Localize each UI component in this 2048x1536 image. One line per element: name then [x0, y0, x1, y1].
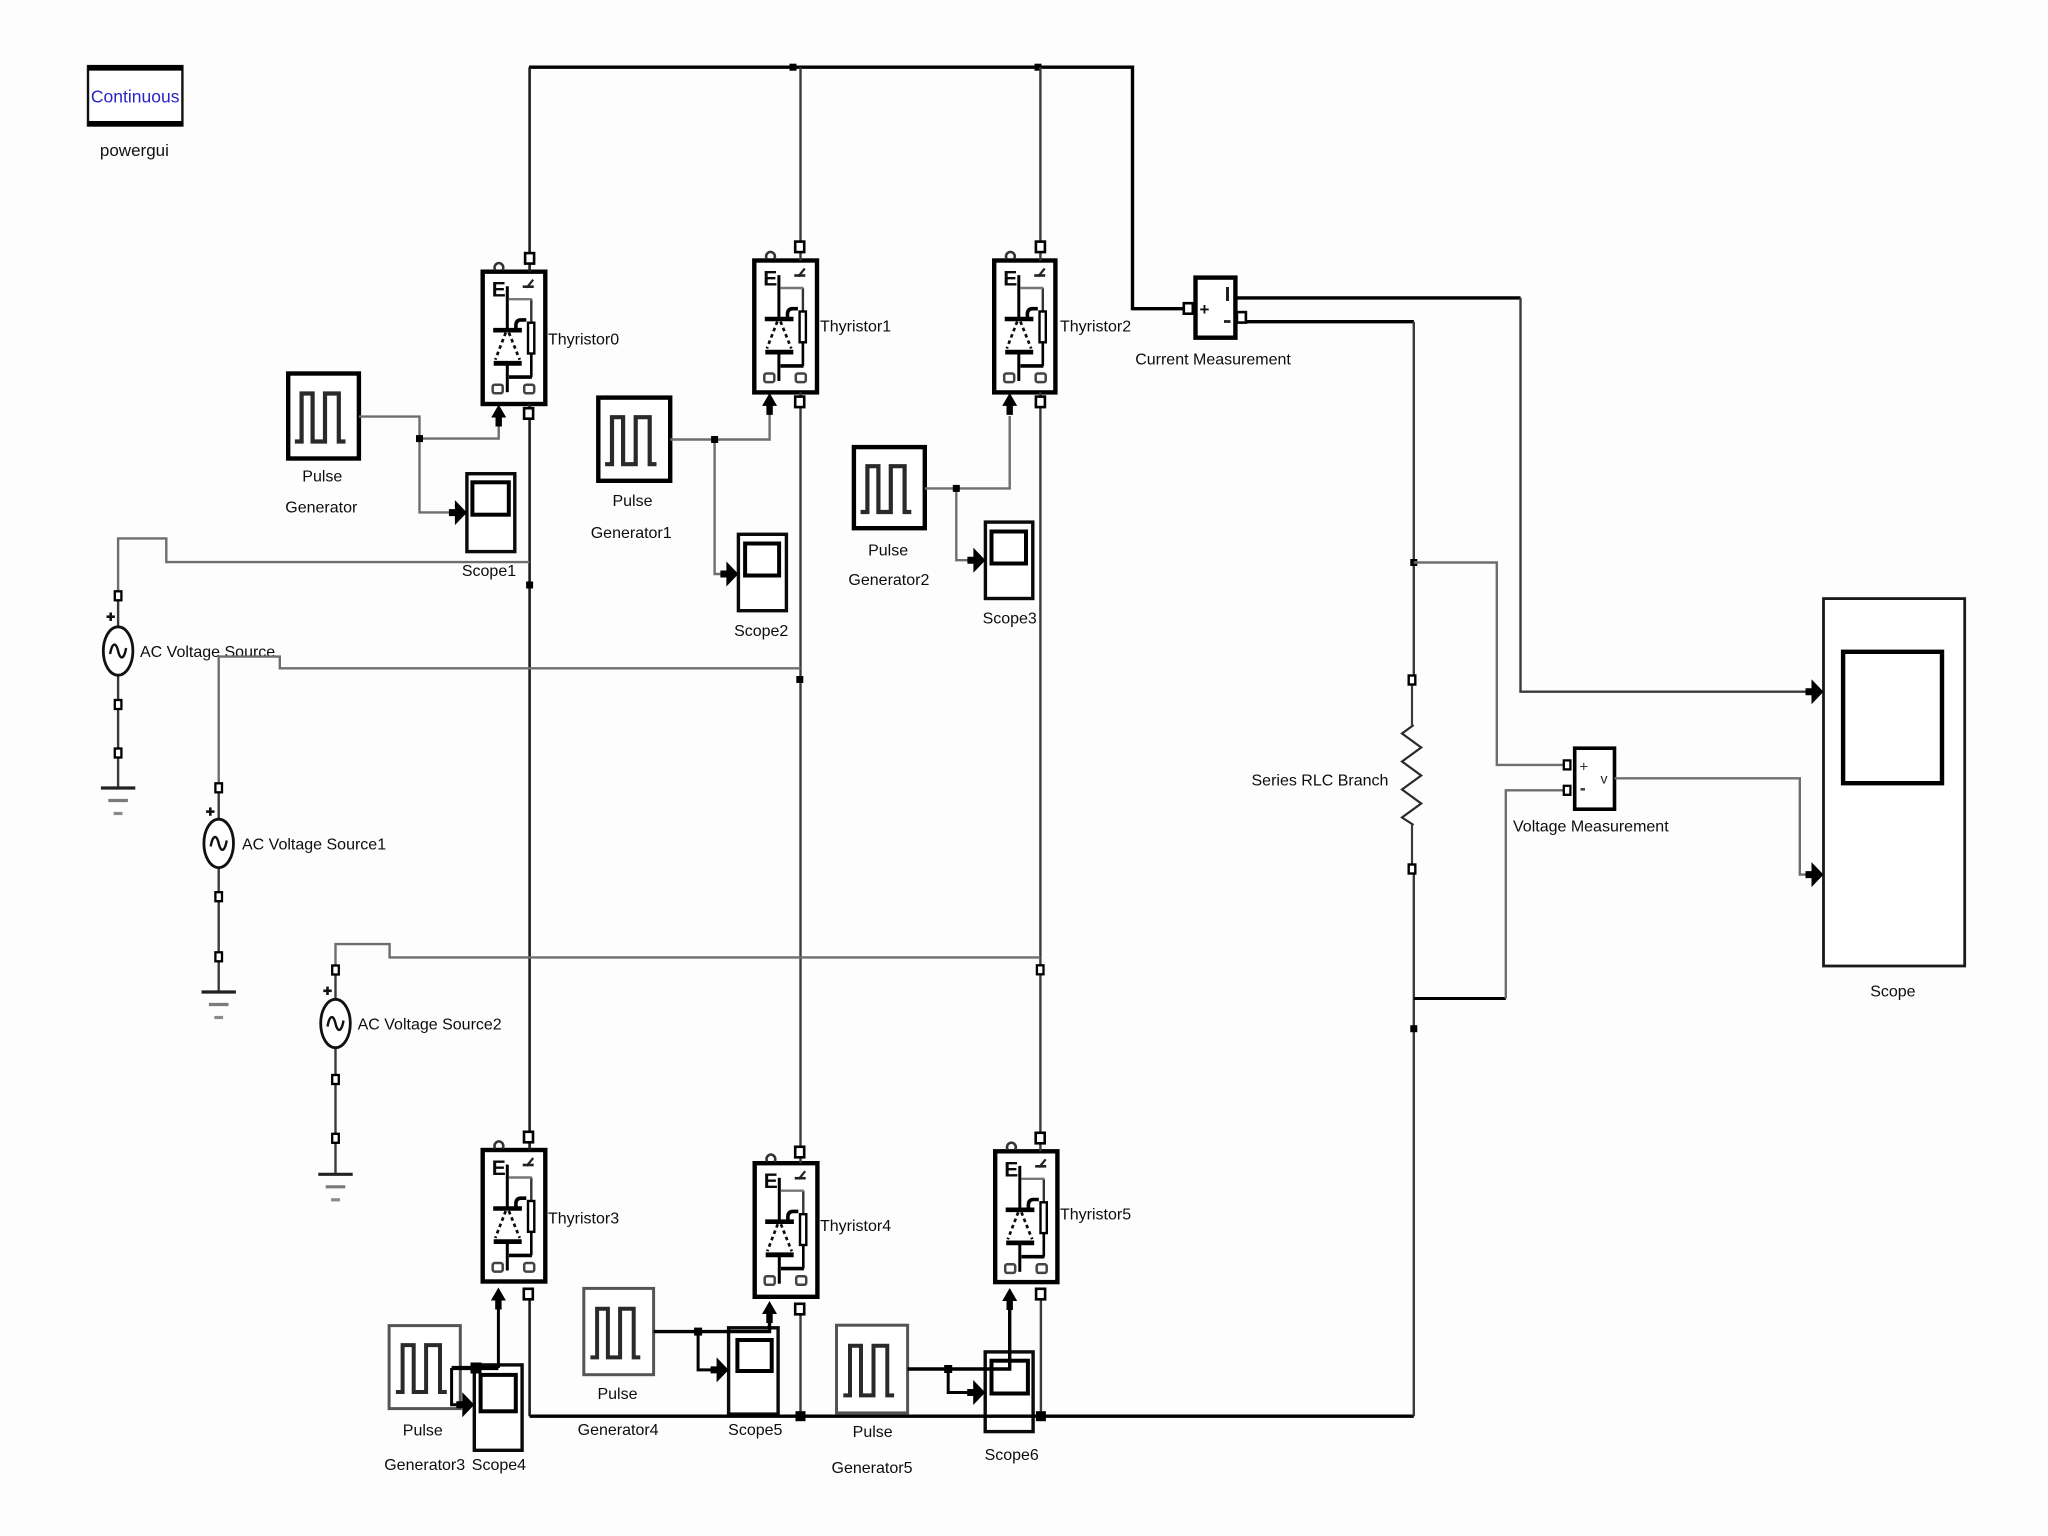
wire Current Measurement minus to Series RLC Branch: [1245, 320, 1414, 323]
svg-text:E: E: [492, 1157, 506, 1180]
wire Thyristor1 cathode column from top bus: [799, 67, 801, 260]
arrow Thyristor3 gate: [491, 1288, 506, 1310]
arrow into Scope input 2: [1806, 862, 1824, 887]
arrow Thyristor5 gate: [1002, 1288, 1017, 1310]
svg-text:Generator: Generator: [285, 500, 358, 517]
scope Scope (main): [1824, 599, 1965, 966]
svg-text:AC Voltage Source1: AC Voltage Source1: [242, 836, 386, 853]
svg-text:E: E: [1003, 268, 1017, 291]
node junction Pulse Generator5 output: [944, 1365, 952, 1373]
wire branch to Scope5 input: [698, 1332, 714, 1370]
port Thyristor2 k (top): [1036, 242, 1045, 253]
wire branch to Scope2: [715, 440, 723, 575]
node junction top bus at Thyristor2 column: [1035, 64, 1042, 71]
wire Thyristor3 anode to bottom bus: [528, 1299, 531, 1416]
port AC Voltage Source1 +: [215, 783, 222, 792]
arrow into Scope input 1: [1806, 679, 1824, 704]
svg-text:Voltage Measurement: Voltage Measurement: [1513, 819, 1669, 836]
svg-text:Pulse: Pulse: [868, 543, 908, 560]
port Series RLC Branch top: [1409, 676, 1416, 685]
plus sign AC Voltage Source1: [206, 810, 214, 813]
thyristor Thyristor2: [994, 261, 1055, 393]
scope Scope6: [985, 1352, 1033, 1432]
port phase-C tap: [1037, 965, 1044, 974]
svg-text:E: E: [1004, 1158, 1018, 1181]
port Series RLC Branch bottom: [1409, 865, 1416, 874]
wire Series RLC Branch bottom lead: [1411, 825, 1413, 865]
svg-text:Pulse: Pulse: [302, 469, 342, 486]
thyristor Thyristor5: [995, 1151, 1057, 1282]
svg-text:E: E: [763, 268, 777, 291]
svg-text:Scope5: Scope5: [728, 1422, 782, 1439]
svg-text:Scope: Scope: [1870, 984, 1915, 1001]
arrow into Scope4: [456, 1392, 474, 1417]
pulse generator Pulse Generator1: [598, 398, 670, 481]
wire RLC bottom junction to Voltage Measurement minus: [1414, 997, 1506, 1000]
gate glyph above Thyristor4: [767, 1155, 776, 1162]
node junction RLC bottom riser: [1410, 1025, 1417, 1032]
pulse generator Pulse Generator2: [854, 447, 925, 528]
port AC Voltage Source2 -: [332, 1075, 339, 1084]
scope Scope5: [729, 1328, 779, 1414]
node junction top bus at Thyristor1 column: [790, 64, 797, 71]
port Thyristor1 k (top): [795, 242, 804, 253]
wire branch to Thyristor0 gate: [420, 426, 499, 439]
svg-text:Continuous: Continuous: [91, 87, 180, 107]
node junction Pulse Generator2 output: [953, 485, 960, 492]
wire AC Voltage Source1 plus to phase-B column: [219, 657, 801, 783]
svg-text:+: +: [1579, 759, 1588, 776]
port ground1 input: [215, 952, 222, 961]
AC source AC Voltage Source1: [204, 819, 234, 867]
AC source AC Voltage Source2: [321, 999, 351, 1047]
svg-text:Generator3: Generator3: [384, 1457, 465, 1474]
wire Series RLC Branch top lead: [1411, 684, 1413, 725]
wire Pulse Generator5 output to Thyristor5 gate: [908, 1308, 1010, 1369]
node junction RLC top: [1410, 559, 1417, 566]
scope Scope1: [467, 474, 515, 552]
node junction phase-A column: [526, 582, 533, 589]
port Thyristor1 a (bottom): [795, 397, 804, 408]
svg-text:Generator1: Generator1: [591, 525, 672, 542]
svg-text:Current Measurement: Current Measurement: [1135, 352, 1291, 369]
port Thyristor0 a (bottom): [524, 408, 533, 419]
wire Thyristor5 anode to bottom bus: [1040, 1299, 1042, 1416]
wire AC Voltage Source2 plus to phase-C column: [336, 944, 1041, 965]
wire Pulse Generator2 output to Thyristor2 gate and Scope3: [925, 416, 1010, 488]
wire AC Voltage Source1 minus lead to ground: [217, 792, 219, 992]
svg-text:AC Voltage Source: AC Voltage Source: [140, 644, 275, 661]
plus sign AC Voltage Source: [107, 615, 115, 618]
port Thyristor4 a (bottom): [795, 1304, 804, 1315]
svg-text:Pulse: Pulse: [597, 1386, 637, 1403]
node junction phase-B column: [796, 676, 803, 683]
resistor Series RLC Branch: [1402, 725, 1421, 825]
arrow into Scope1: [449, 500, 467, 525]
voltage measurement VM1: [1575, 748, 1615, 809]
svg-text:Thyristor2: Thyristor2: [1060, 319, 1131, 336]
wire phase-C column Thyristor2 anode to Thyristor5 cathode: [1039, 392, 1041, 1151]
wire Pulse Generator output to Thyristor0 gate and Scope1: [359, 417, 452, 513]
thyristor Thyristor3: [483, 1150, 546, 1282]
node junction Pulse Generator3 output: [471, 1363, 482, 1374]
svg-text:Scope6: Scope6: [985, 1447, 1039, 1464]
pulse generator Pulse Generator5: [837, 1325, 908, 1413]
port AC Voltage Source +: [115, 591, 122, 600]
node junction Pulse Generator1 output: [711, 436, 718, 443]
ground ground1: [202, 992, 236, 1018]
port Current Measurement +: [1184, 303, 1193, 314]
wire branch to Scope3: [956, 488, 970, 560]
scope Scope4: [474, 1365, 522, 1450]
arrow into Scope6: [967, 1380, 985, 1405]
gate glyph above Thyristor0: [495, 263, 504, 270]
port Voltage Measurement +: [1564, 760, 1571, 769]
svg-text:E: E: [764, 1170, 778, 1193]
wire Thyristor2 cathode column from top bus: [1039, 67, 1041, 260]
svg-text:+: +: [1200, 300, 1210, 319]
svg-text:Thyristor4: Thyristor4: [820, 1218, 891, 1235]
gate glyph above Thyristor5: [1007, 1143, 1016, 1150]
wire phase-B column Thyristor1 anode to Thyristor4 cathode: [799, 392, 801, 1163]
port Voltage Measurement -: [1564, 786, 1571, 795]
gate glyph above Thyristor2: [1006, 252, 1015, 259]
arrow into Scope2: [720, 562, 738, 587]
svg-text:Generator5: Generator5: [832, 1460, 913, 1477]
pulse generator Pulse Generator4: [584, 1288, 654, 1374]
arrow into Scope5: [711, 1357, 729, 1382]
thyristor Thyristor4: [755, 1163, 818, 1297]
port ground input: [115, 749, 122, 758]
svg-text:Generator2: Generator2: [848, 572, 929, 589]
node junction Pulse Generator4 output: [694, 1328, 702, 1336]
svg-text:Scope3: Scope3: [983, 611, 1037, 628]
arrow Thyristor2 gate: [1002, 393, 1017, 415]
wire Pulse Generator4 output to Thyristor4 gate: [654, 1322, 770, 1332]
port ground2 input: [332, 1134, 339, 1143]
port Thyristor5 a (bottom): [1036, 1289, 1045, 1300]
svg-text:v: v: [1601, 771, 1608, 787]
svg-text:E: E: [492, 279, 506, 302]
arrow Thyristor0 gate: [491, 405, 506, 427]
svg-text:Thyristor3: Thyristor3: [548, 1211, 619, 1228]
port Thyristor0 k (top): [525, 253, 534, 264]
thyristor Thyristor0: [483, 272, 546, 404]
svg-text:Thyristor1: Thyristor1: [820, 319, 891, 336]
wire RLC top junction to Voltage Measurement plus: [1414, 563, 1563, 765]
port AC Voltage Source2 +: [332, 966, 339, 975]
svg-text:powergui: powergui: [100, 141, 169, 160]
wire AC Voltage Source plus to phase-A column: [118, 538, 529, 591]
port Thyristor3 k (top): [524, 1132, 533, 1143]
powergui block: [88, 66, 182, 125]
port Thyristor4 k (top): [795, 1147, 804, 1158]
wire Thyristor0 cathode column from top bus: [528, 67, 531, 272]
thyristor Thyristor1: [754, 261, 817, 393]
wire bottom anode bus: [530, 1414, 1414, 1417]
port AC Voltage Source -: [115, 700, 122, 709]
gate glyph above Thyristor1: [766, 252, 775, 259]
node junction Thyristor4 at bottom bus: [796, 1411, 806, 1421]
port AC Voltage Source1 -: [215, 892, 222, 901]
plus sign AC Voltage Source2: [323, 989, 331, 992]
wire Thyristor4 anode to bottom bus: [799, 1313, 801, 1416]
wire phase-A column Thyristor0 anode to Thyristor3 cathode: [528, 404, 531, 1150]
wire Pulse Generator3 output to Thyristor3 gate: [452, 1366, 499, 1370]
svg-text:Series RLC Branch: Series RLC Branch: [1252, 773, 1389, 790]
svg-text:Thyristor0: Thyristor0: [548, 332, 619, 349]
wire RLC bottom to bottom bus riser: [1413, 873, 1415, 1416]
node junction Pulse Generator output: [416, 435, 423, 442]
ground ground: [101, 788, 135, 814]
arrow into Scope3: [967, 548, 985, 573]
svg-text:Scope1: Scope1: [462, 563, 516, 580]
svg-text:Pulse: Pulse: [853, 1424, 893, 1441]
wire loop to Scope4 input: [452, 1368, 460, 1405]
AC source AC Voltage Source: [103, 627, 133, 675]
svg-text:Generator4: Generator4: [578, 1422, 659, 1439]
svg-text:Scope2: Scope2: [734, 623, 788, 640]
ground ground2: [318, 1174, 352, 1200]
port Thyristor2 a (bottom): [1036, 397, 1045, 408]
svg-text:Pulse: Pulse: [403, 1423, 443, 1440]
wire AC Voltage Source2 minus lead to ground: [334, 974, 336, 1174]
svg-text:Thyristor5: Thyristor5: [1060, 1207, 1131, 1224]
current measurement CM1: [1196, 278, 1236, 338]
scope Scope2: [738, 534, 786, 610]
scope Scope3: [985, 522, 1032, 598]
pulse generator Pulse Generator: [288, 374, 359, 459]
wire AC Voltage Source minus lead to ground: [117, 600, 119, 788]
wire branch to Scope6 input: [948, 1369, 969, 1393]
wire top bus right drop to Current Measurement: [1133, 66, 1187, 309]
arrow Thyristor4 gate: [762, 1301, 777, 1323]
gate glyph above Thyristor3: [495, 1141, 504, 1148]
svg-text:Pulse: Pulse: [612, 493, 652, 510]
node junction Thyristor5 at bottom bus: [1036, 1411, 1046, 1421]
port Thyristor3 a (bottom): [524, 1289, 533, 1300]
wire top bus (thyristor cathode bus): [529, 65, 1133, 68]
port Thyristor5 k (top): [1036, 1133, 1045, 1144]
wire Voltage Measurement v output to Scope input 2: [1615, 778, 1810, 874]
wire Current Measurement I output to Scope input 1: [1235, 296, 1520, 299]
svg-text:AC Voltage Source2: AC Voltage Source2: [358, 1017, 502, 1034]
port Current Measurement -: [1237, 312, 1246, 323]
arrow Thyristor1 gate: [762, 393, 777, 415]
pulse generator Pulse Generator3: [389, 1326, 460, 1409]
svg-text:Scope4: Scope4: [472, 1457, 526, 1474]
wire Pulse Generator1 output to Thyristor1 gate and Scope2: [670, 414, 769, 440]
